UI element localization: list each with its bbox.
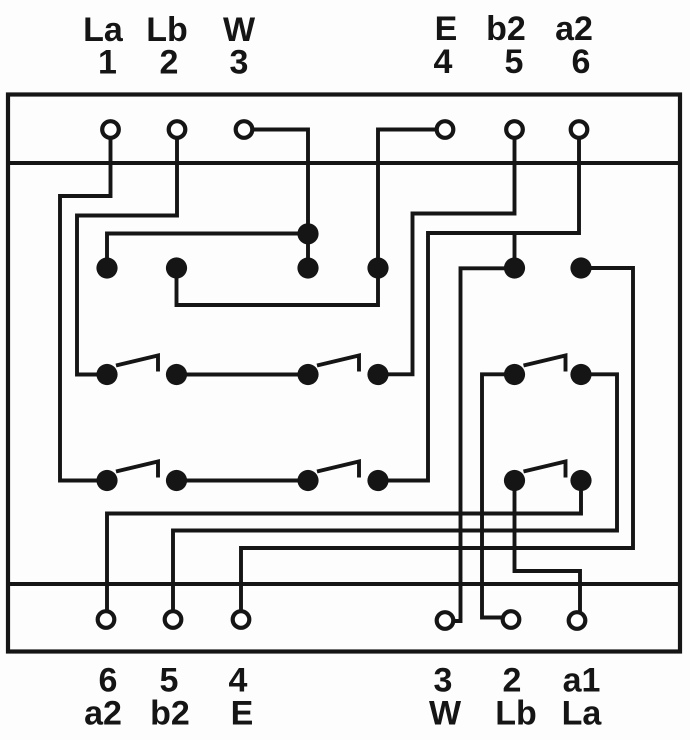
svg-text:3: 3 — [230, 44, 249, 82]
svg-text:W: W — [429, 695, 462, 733]
svg-text:6: 6 — [572, 43, 591, 81]
svg-text:2: 2 — [160, 44, 179, 82]
svg-text:4: 4 — [434, 43, 453, 81]
svg-text:b2: b2 — [150, 695, 190, 733]
svg-text:a2: a2 — [84, 695, 122, 733]
svg-text:5: 5 — [505, 43, 524, 81]
svg-text:Lb: Lb — [495, 695, 537, 733]
svg-text:1: 1 — [98, 44, 117, 82]
svg-text:E: E — [231, 695, 254, 733]
svg-text:La: La — [562, 695, 603, 733]
